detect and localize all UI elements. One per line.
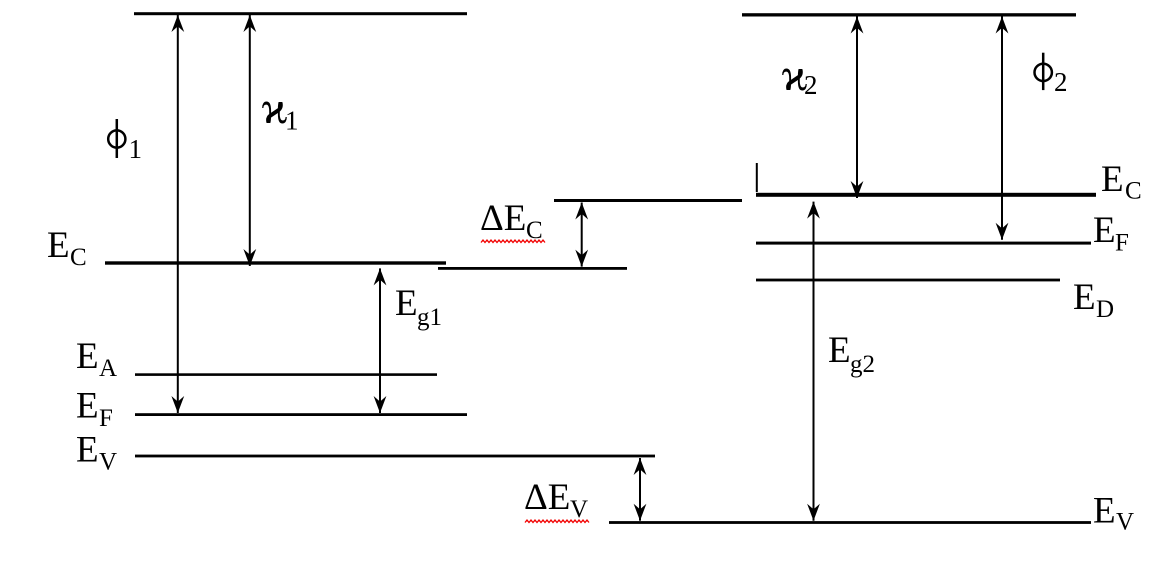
level E_A (acceptor, material 1) (135, 373, 437, 376)
label E_A (76, 336, 117, 382)
label delta-E_C (480, 198, 543, 244)
svg-text:V: V (99, 449, 117, 476)
arrow phi2 (work function 2, vacuum to E_F) (996, 17, 1009, 240)
svg-text:2: 2 (804, 70, 818, 100)
svg-text:D: D (1096, 296, 1114, 323)
label chi2 (782, 49, 818, 100)
vacuum level line (material 2) (742, 13, 1076, 16)
arrow delta-E_V (valence band offset) (634, 458, 647, 521)
level E_C (material 2) (756, 193, 1096, 197)
svg-text:ϰ: ϰ (262, 82, 288, 133)
svg-text:E: E (1073, 277, 1096, 318)
label Eg2 (828, 330, 875, 378)
arrow Eg1 (band gap 1, E_C to E_F) (374, 268, 387, 413)
svg-text:E: E (1101, 159, 1124, 200)
svg-text:ΔE: ΔE (480, 198, 526, 239)
svg-text:g1: g1 (417, 304, 442, 331)
svg-text:A: A (99, 355, 117, 382)
svg-text:C: C (1125, 178, 1142, 205)
arrow Eg2 (band gap 2, E_C to E_V) (807, 202, 820, 521)
arrow phi1 (work function 1, vacuum to E_F) (171, 15, 184, 413)
svg-text:E: E (76, 386, 99, 427)
label E_F (material 1) (76, 386, 113, 433)
interface tick above E_C (material 2) (756, 163, 758, 192)
label E_V (material 1) (76, 430, 117, 476)
label E_F (material 2) (1093, 210, 1129, 257)
label phi2 (1035, 53, 1068, 97)
svg-text:E: E (76, 430, 99, 471)
label E_D (1073, 277, 1114, 323)
svg-text:E: E (1093, 210, 1116, 251)
svg-text:E: E (1093, 491, 1116, 532)
level E_F (material 1) (135, 413, 467, 416)
label Eg1 (395, 283, 442, 331)
svg-text:g2: g2 (850, 351, 875, 378)
svg-text:E: E (828, 330, 851, 371)
svg-text:C: C (70, 244, 87, 271)
arrow delta-E_C (conduction band offset) (575, 203, 588, 267)
svg-text:2: 2 (1054, 67, 1068, 97)
level E_V (material 1) (135, 455, 655, 458)
label delta-E_V (524, 477, 588, 523)
level E_C (material 2, raised mid segment) (554, 199, 742, 202)
label E_C (material 1) (47, 225, 87, 271)
label E_C (material 2) (1101, 159, 1142, 205)
arrow chi2 (electron affinity 2, vacuum to E_C) (851, 17, 864, 199)
wavy underline under delta-E_V (525, 520, 589, 523)
wavy underline under delta-E_C (481, 240, 545, 243)
svg-text:F: F (99, 405, 113, 432)
svg-text:1: 1 (285, 106, 299, 136)
level E_D (donor, material 2) (756, 279, 1060, 282)
svg-text:E: E (76, 336, 99, 377)
svg-text:ΔE: ΔE (524, 477, 570, 518)
svg-text:E: E (395, 283, 418, 324)
level E_C (material 2, interface segment) (438, 267, 627, 270)
arrow chi1 (electron affinity 1, vacuum to E_C) (243, 15, 256, 266)
level E_F (material 2) (756, 242, 1091, 245)
level E_C (material 1) (105, 261, 446, 264)
svg-text:V: V (570, 496, 588, 523)
svg-text:1: 1 (129, 134, 143, 164)
svg-text:V: V (1116, 509, 1134, 536)
level E_V (material 2) (609, 521, 1091, 524)
label E_V (material 2) (1093, 491, 1134, 536)
svg-text:E: E (47, 225, 70, 266)
vacuum level line (material 1) (134, 12, 467, 15)
label chi1 (262, 82, 299, 136)
label phi1 (108, 119, 142, 164)
svg-text:F: F (1115, 230, 1129, 257)
